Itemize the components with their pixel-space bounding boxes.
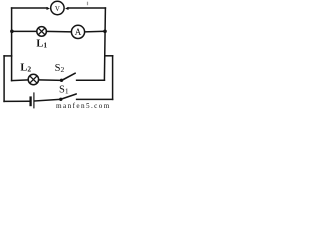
- wire top-right horizontal: [68, 7, 106, 9]
- wire row2 mid segment: [46, 30, 71, 33]
- wire L2 row right: [39, 79, 62, 81]
- junction dot left row2: [10, 30, 14, 34]
- wire left jog at y56: [4, 55, 12, 57]
- wire row2 left segment: [12, 30, 37, 32]
- gray tick mark top: [87, 2, 89, 5]
- wire row2 right segment: [85, 30, 105, 33]
- battery positive plate (tall thin): [33, 92, 35, 108]
- voltmeter U-V circle: [51, 1, 64, 14]
- voltmeter left terminal triangle: [47, 7, 51, 10]
- wire bottom to battery: [4, 100, 30, 102]
- wire right inner vertical V1: [104, 8, 105, 80]
- switch S1 blade: [61, 94, 76, 99]
- svg-text:L2: L2: [20, 63, 31, 74]
- svg-text:manfen5.com: manfen5.com: [56, 102, 111, 109]
- wire left outer vertical: [3, 56, 5, 102]
- svg-text:V: V: [55, 6, 60, 13]
- svg-text:S1: S1: [59, 84, 69, 95]
- svg-text:L1: L1: [36, 38, 47, 49]
- wire battery to S1: [35, 99, 61, 101]
- voltmeter right terminal triangle: [65, 7, 69, 10]
- wire left inner vertical: [11, 8, 13, 81]
- junction dot right row2: [103, 30, 107, 34]
- ammeter U-A circle: [71, 25, 84, 38]
- wire S1 right: [77, 98, 113, 100]
- switch S2 pivot dot: [60, 79, 63, 82]
- lamp L1: [37, 27, 47, 37]
- wire S2 right: [77, 79, 105, 81]
- svg-text:A: A: [75, 27, 82, 37]
- switch S1 pivot dot: [59, 98, 62, 101]
- wire L2 row left: [12, 79, 29, 82]
- wire right outer vertical: [112, 56, 114, 100]
- wire right jog at y56: [105, 55, 113, 57]
- wire top-left horizontal: [12, 7, 48, 9]
- svg-text:S2: S2: [55, 63, 65, 74]
- switch S2 blade: [62, 73, 76, 80]
- lamp L2: [28, 74, 38, 84]
- battery negative plate (short thick): [29, 96, 31, 106]
